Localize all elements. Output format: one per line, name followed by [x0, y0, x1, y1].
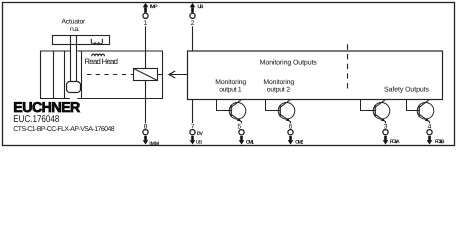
- housing inner wall: [53, 51, 55, 99]
- svg-text:n.a.: n.a.: [70, 26, 80, 33]
- svg-text:UB: UB: [198, 4, 204, 10]
- wire pin2 to block: [192, 26, 194, 51]
- transistor Q2: [266, 100, 295, 122]
- wire pin4 stub: [429, 122, 431, 124]
- svg-text:FO1B: FO1B: [435, 139, 445, 145]
- svg-text:UB: UB: [196, 140, 203, 146]
- slot wall left: [64, 51, 66, 99]
- dashed divider: [347, 44, 349, 92]
- svg-text:output 1: output 1: [219, 87, 242, 94]
- transistor Q4: [407, 100, 434, 122]
- wire pin3 stub: [385, 122, 387, 124]
- pin 7 connector 0V: [190, 123, 204, 145]
- svg-text:Monitoring: Monitoring: [215, 79, 246, 86]
- outer frame: [3, 3, 455, 146]
- svg-text:Monitoring Outputs: Monitoring Outputs: [260, 58, 318, 66]
- label EUC.176048: [13, 114, 59, 125]
- svg-text:OM2: OM2: [295, 139, 303, 145]
- slot wall right: [81, 51, 83, 99]
- wire pin1 to evaluation unit: [145, 26, 147, 68]
- read head housing: [41, 51, 163, 100]
- pin 8 connector IMM: [143, 123, 159, 147]
- transponder in tongue: [67, 82, 81, 93]
- svg-text:CTS-C1-BP-CC-FLX-AP-VSA-176048: CTS-C1-BP-CC-FLX-AP-VSA-176048: [13, 126, 114, 133]
- arrow into monitoring block: [169, 71, 188, 78]
- EUCHNER logo: [13, 100, 80, 116]
- svg-text:OM1: OM1: [246, 139, 254, 145]
- label CTS type: [13, 126, 114, 133]
- actuator coil L1: [91, 39, 102, 44]
- actuator bar: [53, 36, 110, 45]
- svg-text:IMP: IMP: [150, 4, 158, 10]
- read head coil L2: [92, 54, 105, 56]
- svg-text:2: 2: [191, 20, 195, 27]
- label Monitoring output 2: [263, 79, 294, 93]
- label Monitoring Outputs: [260, 58, 318, 66]
- pin 3 connector FO1A: [383, 123, 400, 145]
- wire pin6 stub: [290, 122, 292, 124]
- pin 4 connector FO1B: [427, 123, 445, 145]
- svg-text:FO1A: FO1A: [390, 139, 400, 145]
- label Actuator n.a.: [62, 18, 87, 33]
- label Monitoring output 1: [215, 79, 246, 93]
- wire pin7 from block: [192, 100, 194, 124]
- wire pin5 stub: [241, 122, 243, 124]
- actuator tongue: [71, 36, 77, 82]
- monitoring outputs block: [188, 51, 443, 100]
- label Safety Outputs: [384, 85, 430, 93]
- pin 2 connector UB: [190, 3, 204, 27]
- svg-text:Monitoring: Monitoring: [263, 79, 294, 86]
- label Read Head: [84, 57, 118, 66]
- svg-text:Actuator: Actuator: [62, 18, 87, 25]
- svg-text:Safety Outputs: Safety Outputs: [384, 85, 430, 93]
- pin 1 connector IMP: [143, 3, 158, 27]
- dashed signal line: [87, 74, 134, 76]
- svg-text:0 V: 0 V: [197, 131, 204, 137]
- svg-text:EUC.176048: EUC.176048: [13, 114, 59, 125]
- pin 5 connector OM1: [237, 124, 254, 146]
- pin 6 connector OM2: [288, 123, 304, 145]
- wire evaluation unit to pin 8: [145, 81, 147, 124]
- evaluation unit U1: [134, 69, 163, 81]
- svg-text:1: 1: [144, 20, 148, 27]
- transistor Q3: [361, 100, 390, 122]
- transistor Q1: [217, 100, 246, 122]
- svg-text:IMM: IMM: [149, 141, 159, 147]
- svg-text:Read Head: Read Head: [84, 57, 118, 66]
- svg-text:output 2: output 2: [267, 87, 291, 94]
